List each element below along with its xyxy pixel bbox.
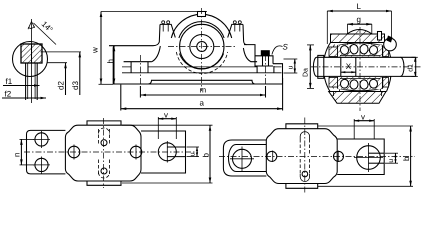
rollers top xyxy=(340,45,350,55)
wing fillet left xyxy=(152,46,160,62)
ring circle xyxy=(190,35,214,59)
left lug xyxy=(160,24,175,37)
dim g xyxy=(347,23,371,25)
angle 14 deg xyxy=(28,22,35,30)
top tab xyxy=(87,121,121,125)
dim h xyxy=(113,46,115,84)
svg-text:L: L xyxy=(357,2,362,11)
shank xyxy=(25,63,27,100)
collar on shaft left xyxy=(318,55,324,78)
svg-text:b: b xyxy=(201,153,210,158)
dim d1 xyxy=(412,56,418,58)
dim X xyxy=(341,71,356,73)
right plate xyxy=(141,131,186,173)
bottom tab xyxy=(286,184,318,189)
bore circle xyxy=(197,42,207,52)
pocket xyxy=(229,145,267,172)
centerlines xyxy=(201,8,203,91)
edge circle left xyxy=(68,146,80,158)
dim d2 xyxy=(47,62,67,64)
svg-text:u: u xyxy=(388,159,395,163)
nipple ball xyxy=(384,38,397,51)
rollers bottom xyxy=(340,78,350,88)
dim b xyxy=(122,124,213,126)
sleeve lines xyxy=(340,57,342,76)
right pad with bolt xyxy=(244,45,283,84)
bolt centerlines xyxy=(139,55,141,86)
svg-text:v: v xyxy=(361,112,365,121)
svg-text:d3: d3 xyxy=(71,81,80,90)
svg-text:v: v xyxy=(164,110,168,119)
svg-text:n: n xyxy=(13,153,22,157)
base (hatched) xyxy=(329,92,386,104)
dim m xyxy=(139,86,141,98)
internal hidden detail top xyxy=(98,129,100,146)
dim n xyxy=(20,139,22,165)
s label + leader xyxy=(272,46,283,55)
edge circle left xyxy=(267,151,277,161)
left plate xyxy=(27,130,66,174)
svg-text:d2: d2 xyxy=(57,81,66,90)
svg-text:g: g xyxy=(357,15,361,24)
slot edges right xyxy=(257,66,274,73)
dim w xyxy=(101,11,207,13)
internal hidden detail bottom xyxy=(299,159,301,174)
centerlines xyxy=(311,66,421,68)
dim u xyxy=(385,152,398,154)
svg-text:d1: d1 xyxy=(407,64,415,72)
svg-text:f2: f2 xyxy=(5,90,12,99)
dim d3 xyxy=(41,51,82,53)
cap (hatched band) xyxy=(331,34,385,43)
wing fillet right xyxy=(243,48,251,62)
saddle arc solid xyxy=(179,54,223,70)
dim u (right of base) xyxy=(284,58,298,60)
hole xyxy=(233,149,252,168)
boss circle xyxy=(180,24,224,68)
internal hidden detail bottom xyxy=(98,160,100,176)
svg-text:f1: f1 xyxy=(6,77,13,86)
centerlines xyxy=(219,155,415,157)
dim b xyxy=(318,125,413,127)
body octagon xyxy=(266,129,337,184)
slot edges left xyxy=(131,62,148,73)
hatch blocks beside bearing xyxy=(329,47,338,57)
edge circle right xyxy=(130,146,142,158)
left plate xyxy=(223,140,266,176)
svg-text:m: m xyxy=(200,86,207,95)
dim L xyxy=(327,10,391,12)
dim v xyxy=(353,119,355,139)
slot channel xyxy=(369,152,385,154)
nipple stem xyxy=(378,32,382,41)
bearing outer ring xyxy=(338,43,383,91)
bottom tab xyxy=(87,181,121,185)
cap outer arc xyxy=(171,14,231,38)
slot circle xyxy=(158,143,176,161)
big circle xyxy=(357,146,381,170)
housing side arcs xyxy=(324,43,392,92)
cap dome (hatched) xyxy=(347,30,372,35)
svg-text:u: u xyxy=(190,152,197,156)
dim a xyxy=(120,85,122,111)
right lug xyxy=(228,24,247,44)
internal hidden detail top xyxy=(300,132,309,139)
shaft xyxy=(317,57,416,76)
hole bottom xyxy=(35,158,48,171)
saddle arc dashed xyxy=(176,52,227,73)
svg-text:S: S xyxy=(283,43,289,52)
bolt head (hatched) xyxy=(21,44,42,63)
housing outline: left wing and base xyxy=(109,24,283,84)
svg-text:a: a xyxy=(200,99,205,108)
base ledge lines xyxy=(122,66,282,68)
dim Da xyxy=(309,45,311,89)
svg-text:Da: Da xyxy=(303,68,310,77)
hole top xyxy=(35,133,48,146)
dim u xyxy=(187,146,200,148)
right plate xyxy=(337,139,384,175)
grease nub on top xyxy=(198,12,206,17)
dim v xyxy=(157,117,159,139)
cap seam arc xyxy=(179,22,224,38)
base bottom recess xyxy=(148,80,256,84)
centerlines xyxy=(24,151,198,153)
eye circle xyxy=(13,42,48,77)
base top edge xyxy=(124,61,258,63)
centerline xyxy=(31,19,33,103)
svg-text:b: b xyxy=(402,156,411,161)
inner ring edges xyxy=(340,55,380,78)
slot channel xyxy=(167,146,185,148)
body octagon xyxy=(65,125,141,181)
top tab xyxy=(286,124,318,129)
svg-text:w: w xyxy=(91,47,100,54)
svg-text:X: X xyxy=(346,62,352,71)
roller zone hatch xyxy=(338,45,382,57)
edge circle right xyxy=(334,151,344,161)
svg-text:u: u xyxy=(288,66,295,70)
